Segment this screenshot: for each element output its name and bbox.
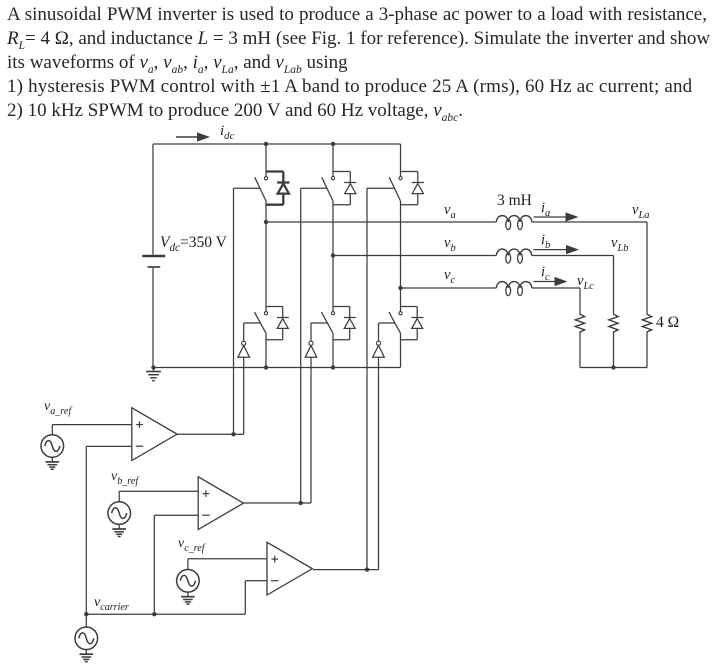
current arrow i_dc [176,133,209,141]
node v_a [264,220,268,224]
label i_dc [220,123,234,140]
op-amp comparator C (phase c) [267,542,312,595]
wire: phase c to inductor [401,287,497,289]
wire: N1 output to S4 gate [244,322,261,324]
wire: +DC bus [153,143,401,145]
junction (leg a on +DC bus) [264,142,268,146]
label i_b [541,232,550,249]
op-amp comparator A (phase a) [132,408,177,461]
switch S1 (upper IGBT, ideal switch with antiparallel diode) [255,144,290,205]
wire: S6 emitter to ground bus [332,333,334,367]
current arrow i_c [533,278,566,286]
wire: load star bus [580,367,647,369]
label v_c_ref [178,536,205,552]
source v_carrier (sinusoidal voltage source) [75,627,98,650]
wire: leg b midpoint [332,201,334,312]
label i_c [541,264,550,281]
wire: gate of S5 [367,187,395,189]
label i_a [541,200,550,217]
wire: carrier distribution bus [86,613,245,615]
wire: Rb lead to star point [613,332,615,368]
wire: gate of S1 [234,187,261,189]
wire: v_a_ref to comparator A + input [52,425,132,435]
junction (load star point) [611,365,615,369]
junction (leg b on ground bus) [331,365,335,369]
resistor Ra (4 ohm load) [642,314,651,332]
wire: comparator C output [313,569,379,571]
label v_a_ref [44,399,71,415]
wire: N3 output to S2 gate [379,322,395,324]
label v_b [444,235,456,252]
junction (carrier source tap) [84,612,88,616]
junction (leg b on +DC bus) [331,142,335,146]
wire: Rc lead to star point [579,332,581,368]
wire: S4 emitter to ground bus [265,333,267,367]
switch S6 (lower IGBT, ideal switch with antiparallel diode) [322,307,356,340]
wire: gate of S3 [301,187,327,189]
junction (leg a on ground bus) [264,365,268,369]
junction (comparator B - input tap) [152,612,156,616]
wire: leg c midpoint [400,201,402,312]
wire: v_b_ref to comparator B + input [119,491,198,502]
node v_b [331,253,335,257]
inductor Lb (3 mH) [496,249,531,263]
junction (comparator C output to S5 gate) [365,567,369,571]
NOT gate N3 (gate-drive inverter) [373,323,385,357]
ground (v_carrier source) [80,650,94,662]
wire: comparator A output up to S1 gate [233,188,235,434]
wire: leg a midpoint [265,201,267,312]
wire: v_Lc down to Rc [579,288,581,315]
wire: Ra lead to star point [646,332,648,368]
wire: phase a to inductor [266,221,496,223]
battery Vdc [142,256,165,267]
label v_c [444,267,455,284]
wire: inductor Lb to v_Lb corner [532,255,614,257]
ground (v_a_ref source) [46,457,60,469]
ground (v_c_ref source) [181,592,195,604]
wire: comparator B output [244,502,311,504]
op-amp comparator B (phase b) [198,477,243,530]
wire: carrier to comparator A - input [86,446,132,614]
node v_c [398,286,402,290]
switch S3 (upper IGBT, ideal switch with antiparallel diode) [322,144,357,205]
source v_a_ref (sinusoidal voltage source) [41,435,64,458]
wire: carrier to comparator B - input [154,515,198,614]
label V_dc=350 V [160,234,227,252]
label v_a [444,202,456,219]
ground (DC bus negative) [146,368,161,381]
wire: carrier to comparator C - input [245,581,267,615]
label v_carrier [94,595,129,611]
wire: N3 input from comparator C [378,357,380,569]
current arrow i_b [533,246,577,254]
source v_b_ref (sinusoidal voltage source) [108,502,131,525]
label v_Lc [577,273,594,290]
wire: from Vdc source down to ground bus [152,268,154,368]
wire: N2 input from comparator B [310,357,312,503]
resistor Rb (4 ohm load) [609,314,618,332]
switch S4 (lower IGBT, ideal switch with antiparallel diode) [255,307,289,340]
junction (comparator B output to S3 gate) [299,501,303,505]
source v_c_ref (sinusoidal voltage source) [177,570,200,593]
wire: -DC / ground bus [153,367,401,369]
wire: inductor La to v_La corner [532,221,647,223]
junction (ground corner) [151,365,155,369]
label v_Lb [611,235,628,252]
ground (v_b_ref source) [112,524,126,536]
NOT gate N2 (gate-drive inverter) [305,323,317,357]
wire: S2 emitter to ground bus [400,333,402,367]
inductor Lc (3 mH) [496,282,531,296]
label v_La [632,202,649,219]
label 4 ohm [656,314,679,332]
wire: carrier source to bus [85,614,87,627]
NOT gate N1 (gate-drive inverter) [238,323,250,357]
wire: comparator C output up to S5 gate [366,188,368,569]
switch S5 (upper IGBT, ideal switch with antiparallel diode) [389,144,424,205]
wire: v_La down to Ra [646,222,648,315]
wire: comparator B output up to S3 gate [300,188,302,503]
label 3 mH [497,192,532,210]
wire: v_Lb down to Rb [613,256,615,315]
wire: comparator A output [177,433,244,435]
switch S2 (lower IGBT, ideal switch with antiparallel diode) [389,307,423,340]
wire: N1 input from comparator A [243,357,245,434]
inductor La (3 mH) [496,216,531,230]
wire: phase b to inductor [333,255,496,257]
wire: inductor Lc to v_Lc corner [532,287,580,289]
junction (comparator A output to S1 gate) [231,432,235,436]
wire: N2 output to S6 gate [311,322,327,324]
current arrow i_a [533,213,577,221]
resistor Rc (4 ohm load) [575,314,584,332]
wire: from +DC bus down to Vdc source [152,144,154,255]
wire: v_c_ref to comparator C + input [188,559,267,570]
label v_b_ref [111,469,138,485]
